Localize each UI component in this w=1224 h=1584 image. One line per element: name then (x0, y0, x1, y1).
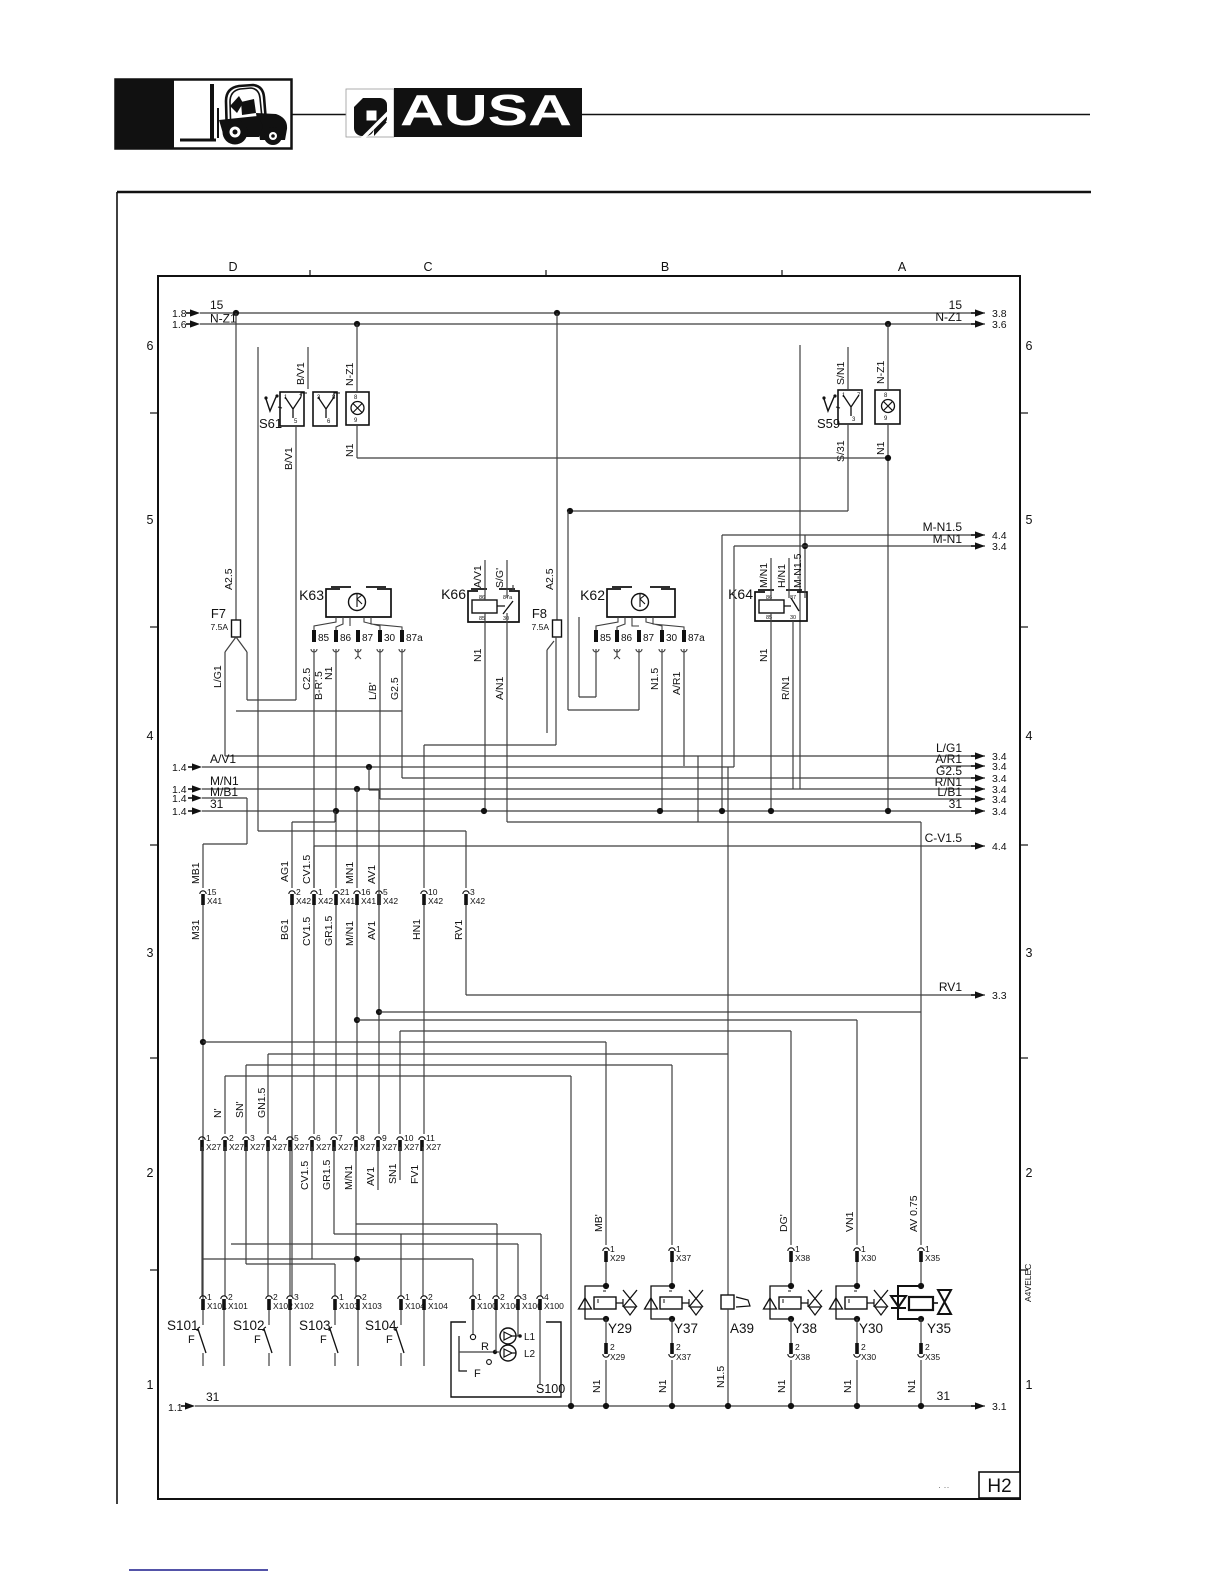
net AV 0.75 y1012 (379, 1011, 921, 1013)
connector X41 pin 15 (200, 887, 223, 906)
bundle y1224 (356, 1223, 497, 1225)
svg-text:M/N1: M/N1 (343, 1165, 355, 1190)
svg-text:X37: X37 (676, 1352, 691, 1362)
wire RV1 below X42-3 (465, 905, 467, 995)
svg-text:S101: S101 (167, 1318, 199, 1333)
junction 31 x=660 (657, 808, 663, 814)
K66 wire N1 below (484, 613, 486, 811)
net N1.5 y1054 (268, 1053, 728, 1055)
svg-text:M-N1.5: M-N1.5 (792, 553, 804, 588)
junction A/V1 to X42-5 (366, 764, 372, 770)
svg-text:AV1: AV1 (366, 865, 378, 884)
wire x698 L/G1 to y822 (697, 756, 699, 822)
svg-text:L/B': L/B' (367, 682, 379, 700)
wire x921 down to AV line (920, 822, 922, 1012)
svg-text:CV1.5: CV1.5 (301, 917, 313, 946)
net N y1076 (225, 1075, 571, 1077)
svg-text:Y37: Y37 (674, 1321, 698, 1336)
svg-text:RV1: RV1 (939, 980, 962, 994)
svg-text:K63: K63 (299, 587, 324, 603)
pressure switch A39 (715, 1295, 754, 1406)
svg-text:N-Z1: N-Z1 (210, 312, 237, 326)
wire BG1 below X42-2 (291, 905, 293, 1296)
svg-text:X41: X41 (340, 896, 355, 906)
svg-text:1: 1 (1026, 1378, 1033, 1392)
svg-text:N-Z1: N-Z1 (344, 363, 356, 386)
wire HN1 above X42-10 (423, 745, 425, 888)
wire S/N1 above S59 (847, 347, 849, 390)
wire N1 below X35 (920, 1360, 922, 1406)
bundle y1234 (334, 1233, 541, 1235)
junction 31 bottom x=791 (788, 1403, 794, 1409)
svg-text:3.4: 3.4 (992, 794, 1007, 806)
connector X35 pin 1 (918, 1244, 941, 1263)
svg-text:N-Z1: N-Z1 (935, 310, 962, 324)
svg-text:N1: N1 (758, 648, 770, 662)
junction M31 branch MB-X29 (200, 1039, 206, 1045)
wire S61 left long (257, 347, 259, 831)
svg-text:C-V1.5: C-V1.5 (925, 831, 963, 845)
net RV1 (466, 994, 985, 996)
svg-text:MB': MB' (593, 1214, 605, 1232)
junction AV1 y1012 (376, 1009, 382, 1015)
wire X101-2 stub (223, 1310, 225, 1366)
svg-text:H2: H2 (987, 1476, 1011, 1497)
connector X37 pin 2 (669, 1342, 692, 1362)
net C-V1.5 (314, 845, 985, 847)
wire A2.5 to F7 (235, 313, 237, 620)
connector X42 pin 3 (463, 887, 486, 906)
svg-text:N1: N1 (323, 666, 335, 680)
relay K64 (728, 586, 807, 621)
wire CV1.5 below X27-6 (311, 1147, 313, 1259)
svg-text:S/N1: S/N1 (835, 361, 847, 385)
K62 wire 87 (638, 649, 640, 710)
svg-text:31: 31 (210, 797, 224, 811)
svg-text:AG1: AG1 (279, 861, 291, 882)
K64 wire M-N1.5 drop (804, 535, 806, 598)
wire X103-2 stub (357, 1310, 359, 1366)
bus 15 (200, 312, 985, 314)
junction N-Z1/S61 lamp (354, 321, 360, 327)
svg-text:X42: X42 (470, 896, 485, 906)
net VN1 y1020 (357, 1019, 857, 1021)
svg-text:M/N1: M/N1 (758, 563, 770, 588)
wire AV1 below X27-9 (377, 1147, 379, 1190)
connector X27 pin 2 (222, 1133, 245, 1152)
svg-text:2: 2 (925, 1342, 930, 1352)
junction 31 x=888 (885, 808, 891, 814)
svg-text:A/V1: A/V1 (210, 752, 236, 766)
svg-text:AUSA: AUSA (400, 86, 572, 135)
F8 output down (555, 637, 557, 745)
junction 31 bottom x=672 (669, 1403, 675, 1409)
wire M/N1 below X41-16 (356, 905, 358, 1134)
wire N1 below X37 (671, 1360, 673, 1406)
svg-text:N-Z1: N-Z1 (875, 361, 887, 384)
svg-text:L2: L2 (524, 1349, 536, 1360)
svg-text:3: 3 (1026, 946, 1033, 960)
proportional valve Y35 (891, 1262, 951, 1343)
wire N1 below S61 lamp (356, 425, 358, 458)
net M-N1.5 (722, 534, 985, 536)
connector X42 pin 2 (289, 887, 312, 906)
K64 wire R/N1 below (792, 621, 794, 789)
wire X104-2 stub (423, 1310, 425, 1366)
wire S/31 vertical (567, 511, 569, 710)
K63 wire 30 / L/B1 (379, 649, 381, 799)
svg-text:N1.5: N1.5 (649, 668, 661, 690)
svg-text:GN1.5: GN1.5 (256, 1087, 268, 1118)
wire segment y822 (507, 821, 921, 823)
svg-text:X42: X42 (296, 896, 311, 906)
junction 31 bottom x=606 (603, 1403, 609, 1409)
svg-text:X100: X100 (477, 1301, 497, 1311)
svg-text:F: F (254, 1334, 261, 1346)
svg-text:A39: A39 (730, 1321, 754, 1336)
svg-text:30: 30 (384, 633, 396, 644)
wire X102-3 stub (289, 1310, 291, 1366)
svg-text:A/N1: A/N1 (494, 676, 506, 700)
svg-text:X27: X27 (382, 1142, 397, 1152)
svg-text:MN1: MN1 (344, 862, 356, 884)
bundle y1259 (202, 1258, 473, 1260)
svg-text:X101: X101 (228, 1301, 248, 1311)
connector X38 pin 1 (788, 1244, 811, 1263)
net SN y1065 (246, 1064, 672, 1066)
indicator L2 (500, 1345, 516, 1361)
connector X102 pin 3 (287, 1292, 314, 1311)
junction M/N1 y1020 (354, 1017, 360, 1023)
svg-text:5: 5 (1026, 513, 1033, 527)
wire X100-4 into S100 (539, 1310, 541, 1385)
connector X104 pin 2 (421, 1292, 448, 1311)
svg-text:87a: 87a (503, 595, 513, 601)
valve Y38 (764, 1262, 823, 1343)
schematic frame (158, 276, 1020, 1499)
svg-text:S59: S59 (817, 416, 840, 431)
svg-text:X27: X27 (206, 1142, 221, 1152)
svg-text:F: F (320, 1334, 327, 1346)
svg-text:M31: M31 (190, 919, 202, 940)
junction 31 bottom x=571 (568, 1403, 574, 1409)
svg-text:X27: X27 (404, 1142, 419, 1152)
svg-text:3.1: 3.1 (992, 1401, 1007, 1413)
connector X30 pin 2 (854, 1342, 877, 1362)
svg-text:L/G1: L/G1 (212, 665, 224, 688)
wire HN1 below X42-10 (423, 905, 425, 1134)
svg-text:BG1: BG1 (279, 919, 291, 940)
K63 wire 87a / G2.5 (401, 649, 403, 778)
wire MB1 to X41-15 (202, 844, 204, 888)
svg-text:X38: X38 (795, 1352, 810, 1362)
svg-text:X35: X35 (925, 1253, 940, 1263)
K62 wire 87a / A/R1 stub (683, 649, 685, 766)
wire S/31 below S59 (847, 424, 849, 511)
wire GR1.5 below X41-21 (335, 905, 337, 1134)
svg-text:87: 87 (790, 595, 796, 601)
relay K62 (580, 587, 684, 633)
svg-text:2: 2 (861, 1342, 866, 1352)
svg-text:X42: X42 (383, 896, 398, 906)
wire S/31 horizontal (570, 510, 848, 512)
svg-text:3.4: 3.4 (992, 806, 1007, 818)
svg-text:X103: X103 (362, 1301, 382, 1311)
svg-text:X42: X42 (428, 896, 443, 906)
net M/B1 left stub (202, 797, 247, 799)
connector X103 pin 1 (332, 1292, 359, 1311)
relay K66 (441, 586, 519, 622)
K64 wire N1 below (770, 613, 772, 811)
wire M-N1.5 left drop to 31 (721, 535, 723, 811)
svg-text:N1: N1 (591, 1379, 603, 1393)
svg-text:X42: X42 (318, 896, 333, 906)
svg-text:S104: S104 (365, 1318, 397, 1333)
bundle y1264 (246, 1263, 335, 1265)
svg-text:S61: S61 (259, 416, 282, 431)
header rule to AUSA logo (291, 114, 346, 116)
svg-text:A4VELEC: A4VELEC (1023, 1264, 1033, 1302)
svg-text:N1: N1 (906, 1379, 918, 1393)
svg-text:X104: X104 (405, 1301, 425, 1311)
svg-text:A/V1: A/V1 (472, 565, 484, 588)
svg-text:AV1: AV1 (366, 921, 378, 940)
valve Y37 (645, 1262, 704, 1343)
svg-text:DG': DG' (778, 1214, 790, 1232)
wire CV1.5 below X42-1 (313, 905, 315, 1134)
svg-text:N': N' (212, 1108, 224, 1118)
svg-text:H/N1: H/N1 (776, 564, 788, 588)
valve Y29 (579, 1262, 638, 1343)
junction S/31 drop (567, 508, 573, 514)
svg-text:X30: X30 (861, 1352, 876, 1362)
frame column ticks (309, 270, 311, 277)
wire HN1 feed y745 (424, 744, 556, 746)
connector X42 pin 1 (311, 887, 334, 906)
svg-text:K64: K64 (728, 586, 753, 602)
svg-text:AV1: AV1 (365, 1167, 377, 1186)
svg-text:A2.5: A2.5 (223, 568, 235, 590)
svg-text:X104: X104 (428, 1301, 448, 1311)
svg-text:AV 0.75: AV 0.75 (908, 1195, 920, 1232)
net 31 row4 (202, 810, 985, 812)
junction 31 bottom x=857 (854, 1403, 860, 1409)
svg-text:F: F (474, 1368, 481, 1380)
svg-text:30: 30 (503, 616, 509, 622)
wire X100-3 into S100 (517, 1310, 519, 1336)
svg-text:6: 6 (1026, 339, 1033, 353)
svg-text:S103: S103 (299, 1318, 331, 1333)
svg-text:X27: X27 (360, 1142, 375, 1152)
junction 31 x=722 (719, 808, 725, 814)
junction 31 x=771 (768, 808, 774, 814)
wire MN1 above X41-16 (356, 789, 358, 888)
wire M31 below X41-15 (202, 905, 204, 1300)
connector X27 pin 10 (397, 1133, 420, 1152)
svg-text:S/G': S/G' (494, 568, 506, 588)
net L/G1 (225, 755, 985, 757)
svg-text:1.1: 1.1 (168, 1402, 183, 1414)
svg-text:N1.5: N1.5 (715, 1366, 727, 1388)
K63 wire 87 stub (357, 649, 359, 656)
wire AV1 below X42-5 (378, 850, 380, 1134)
K64 wire M/N1 above (770, 558, 772, 600)
connector X100 pin 2 (493, 1292, 520, 1311)
wire SN1 below X27-10 (399, 1147, 401, 1180)
wire below X27-2 (224, 1147, 226, 1296)
connector X29 pin 2 (603, 1342, 626, 1362)
svg-text:X27: X27 (272, 1142, 287, 1152)
connector X42 pin 10 (421, 887, 444, 906)
footer link line (129, 1569, 268, 1571)
svg-text:S102: S102 (233, 1318, 265, 1333)
svg-text:X103: X103 (339, 1301, 359, 1311)
svg-text:X27: X27 (250, 1142, 265, 1152)
connector X27 pin 5 (287, 1133, 310, 1152)
svg-text:M-N1: M-N1 (933, 532, 963, 546)
K66 wire A/V1 above (484, 560, 486, 600)
svg-text:3.4: 3.4 (992, 541, 1007, 553)
connector X27 pin 1 (199, 1133, 222, 1152)
wire below X27-1 (201, 1147, 203, 1296)
wire CV1.5 above X42-1 (313, 846, 315, 888)
svg-text:N1: N1 (657, 1379, 669, 1393)
svg-text:F8: F8 (532, 606, 547, 621)
relay K63 (299, 587, 402, 633)
svg-text:N1: N1 (344, 443, 356, 457)
svg-text:N1: N1 (776, 1379, 788, 1393)
svg-text:1.4: 1.4 (172, 806, 187, 818)
connector X27 pin 7 (331, 1133, 354, 1152)
svg-text:X29: X29 (610, 1352, 625, 1362)
svg-text:F: F (386, 1334, 393, 1346)
switch S61 (259, 392, 369, 431)
svg-text:4.4: 4.4 (992, 841, 1007, 853)
svg-text:4: 4 (1026, 729, 1033, 743)
svg-text:A2.5: A2.5 (544, 568, 556, 590)
connector X101 pin 1 (200, 1292, 227, 1311)
svg-text:6: 6 (147, 339, 154, 353)
connector X38 pin 2 (788, 1342, 811, 1362)
svg-text:87a: 87a (688, 633, 705, 644)
svg-text:86: 86 (479, 595, 485, 601)
wire B/V1 below S61 (295, 426, 297, 700)
svg-text:87: 87 (362, 633, 374, 644)
svg-text:X27: X27 (294, 1142, 309, 1152)
connector X27 pin 9 (375, 1133, 398, 1152)
svg-text:1: 1 (147, 1378, 154, 1392)
net G2.5 (402, 777, 985, 779)
bus N-Z1 (200, 323, 985, 325)
svg-text:RV1: RV1 (453, 920, 465, 940)
fuse F8 (532, 606, 562, 637)
svg-text:C: C (423, 260, 432, 274)
wire N1 below S59 lamp (887, 424, 889, 811)
svg-text:2: 2 (795, 1342, 800, 1352)
svg-text:GR1.5: GR1.5 (323, 915, 335, 946)
connector X42 pin 5 (376, 887, 399, 906)
svg-text:GR1.5: GR1.5 (321, 1159, 333, 1190)
wire below X27-4 (267, 1147, 269, 1296)
wire stub x800 to R/N1 (799, 345, 801, 789)
svg-text:85: 85 (479, 616, 485, 622)
svg-text:7.5A: 7.5A (211, 622, 229, 632)
svg-text:1.4: 1.4 (172, 762, 187, 774)
K64 wire H/N1 above (788, 558, 790, 598)
net DG1 y1031 (400, 1030, 791, 1032)
svg-text:G2.5: G2.5 (389, 677, 401, 700)
svg-text:C2.5: C2.5 (301, 668, 313, 690)
indicator L1 (500, 1328, 516, 1344)
svg-text:A/R1: A/R1 (671, 671, 683, 695)
connector X101 pin 2 (221, 1292, 248, 1311)
svg-text:2: 2 (1026, 1166, 1033, 1180)
svg-text:X100: X100 (544, 1301, 564, 1311)
wire M/N1 below X27-8 (355, 1147, 357, 1296)
svg-text:2: 2 (676, 1342, 681, 1352)
svg-text:3.6: 3.6 (992, 319, 1007, 331)
svg-text:D: D (228, 260, 237, 274)
wire bridge y711 (236, 710, 402, 712)
connector X29 pin 1 (603, 1244, 626, 1263)
svg-text:B/V1: B/V1 (283, 447, 295, 470)
wire N-Z1 to S61 lamp (356, 324, 358, 392)
junction bundle x357 (354, 1256, 360, 1262)
wire RV1 from S61 long (258, 830, 466, 832)
svg-text:B/V1: B/V1 (295, 362, 307, 385)
junction M/N1 to X41-16 (354, 786, 360, 792)
svg-text:FV1: FV1 (409, 1165, 421, 1184)
svg-text:87a: 87a (406, 633, 423, 644)
bundle y1244 (231, 1243, 518, 1245)
svg-text:31: 31 (937, 1389, 951, 1403)
svg-text:M/N1: M/N1 (344, 921, 356, 946)
junction 31 bottom x=728 (725, 1403, 731, 1409)
svg-text:K66: K66 (441, 586, 466, 602)
net L/B1 (380, 798, 985, 800)
svg-text:R: R (481, 1341, 489, 1353)
svg-text:31: 31 (206, 1390, 220, 1404)
svg-text:X41: X41 (207, 896, 222, 906)
svg-text:Y35: Y35 (927, 1321, 951, 1336)
connector X27 pin 6 (309, 1133, 332, 1152)
svg-text:7.5A: 7.5A (532, 622, 550, 632)
junction N-Z1/S59 lamp (885, 321, 891, 327)
K66 wire S/G1 above (506, 560, 508, 598)
connector X41 pin 21 (333, 887, 356, 906)
connector X102 pin 2 (266, 1292, 293, 1311)
svg-text:R/N1: R/N1 (780, 676, 792, 700)
svg-text:3.3: 3.3 (992, 990, 1007, 1002)
svg-text:X27: X27 (229, 1142, 244, 1152)
svg-text:MB1: MB1 (190, 862, 202, 884)
wire GR1.5 below X27-7 (333, 1147, 335, 1234)
svg-text:K62: K62 (580, 587, 605, 603)
svg-text:B: B (661, 260, 669, 274)
K62 wire 86 stub (616, 649, 618, 656)
K63 wire 86 / N1 (335, 649, 337, 888)
wire S/31 bridge to K62-87 (568, 709, 639, 711)
wire M-N1 jog to A/V1 (733, 546, 735, 767)
net M-N1 (734, 545, 985, 547)
AUSA logo (117, 86, 1091, 1570)
wire AG1 net from 31 (334, 811, 336, 822)
svg-text:A: A (898, 260, 907, 274)
valve Y30 (830, 1262, 889, 1343)
switch S101 (167, 1310, 206, 1366)
K62 wire 85 U-loop (595, 649, 597, 697)
K63 wire 85 / C2.5 (313, 649, 315, 888)
